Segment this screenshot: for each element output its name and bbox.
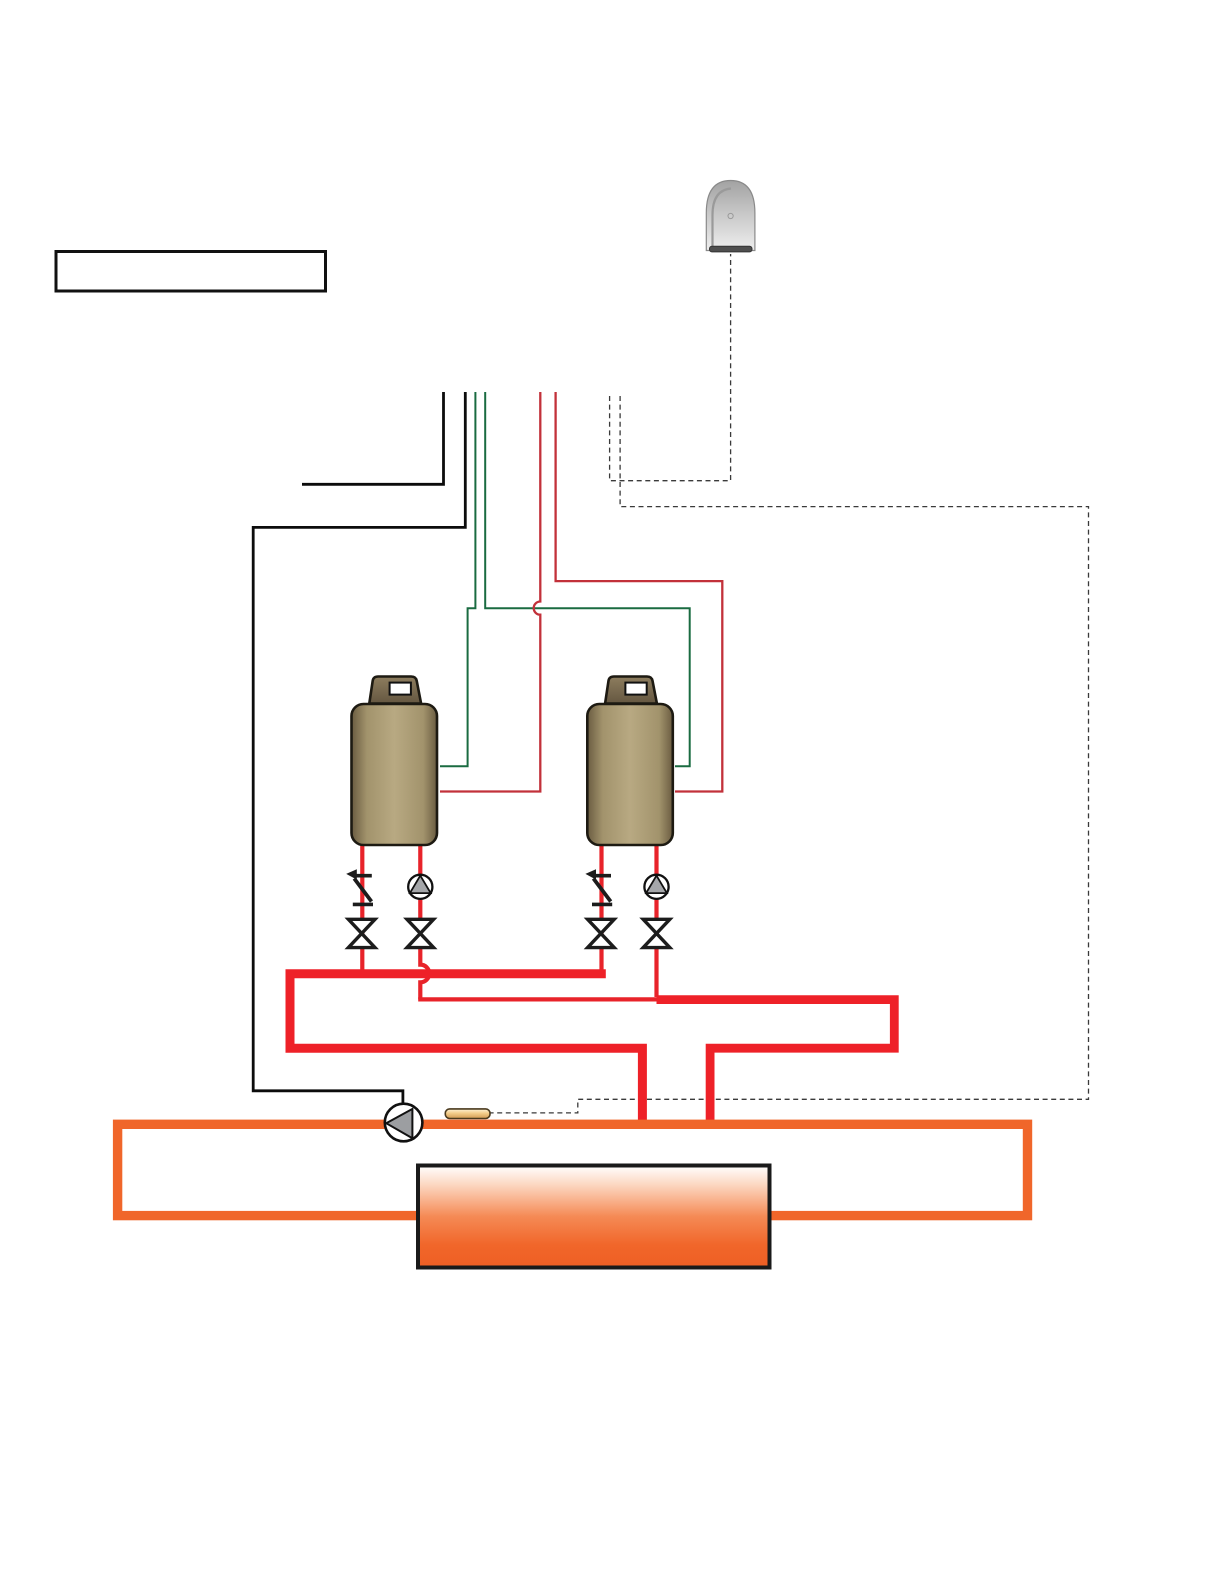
valve: gate valve boiler 1 right xyxy=(407,919,434,947)
pipe: boiler 2 pump drop xyxy=(654,842,658,997)
boiler B1 xyxy=(352,677,438,846)
wire: black system pump wire to bottom pump xyxy=(253,392,465,1106)
valve: gate valve boiler 1 left xyxy=(348,919,375,947)
pipe: thin red return run between boiler drops xyxy=(418,997,657,1001)
pipe: boiler 2 supply riser (left) xyxy=(599,842,603,971)
pipe: thick red return header down to tank xyxy=(657,1000,895,1122)
pipe: boiler 1 supply riser (left) xyxy=(360,842,364,971)
pump: system pump on tank loop xyxy=(385,1104,423,1142)
pump: boiler 1 circulator xyxy=(408,875,432,899)
pipe: boiler 1 pump drop with hop over header xyxy=(420,842,429,999)
wire: red enable wire to boiler 1 (with hop over green wire) xyxy=(440,392,540,792)
label box (empty callout) xyxy=(56,252,326,292)
sensor: strap-on tank sensor (brass) xyxy=(445,1109,490,1119)
wire: dashed tank sensor cable from controller to strap-on sensor xyxy=(489,396,1089,1113)
tank: storage tank T1 xyxy=(418,1166,770,1268)
pipe: thick red supply header down to tank xyxy=(290,974,642,1122)
wire: dashed outdoor sensor cable from controller to sensor xyxy=(610,254,731,481)
wire: black power wire left stub xyxy=(302,392,444,484)
wire: green sensor wire to boiler 2 xyxy=(485,392,690,766)
valve: check valve boiler 2 xyxy=(585,869,612,904)
wire: green sensor wire to boiler 1 xyxy=(440,392,475,766)
pump: boiler 2 circulator xyxy=(644,875,668,899)
boiler B2 xyxy=(587,677,673,846)
valve: gate valve boiler 2 left xyxy=(588,919,615,947)
wire: red enable wire to boiler 2 xyxy=(556,392,723,792)
valve: check valve boiler 1 xyxy=(346,869,373,904)
sensor: outdoor air sensor dome xyxy=(706,181,755,252)
valve: gate valve boiler 2 right xyxy=(643,919,670,947)
pipe: orange tank loop xyxy=(118,1124,1028,1215)
